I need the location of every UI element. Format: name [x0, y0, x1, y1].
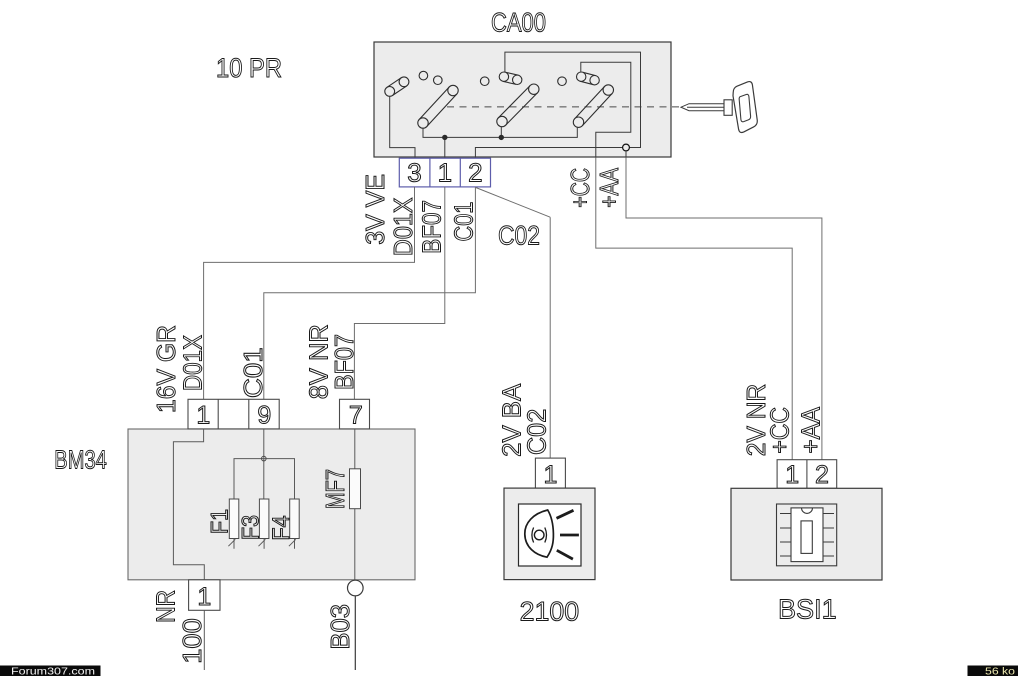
connector pin 1 of lamp 2100 [535, 458, 565, 489]
svg-text:2: 2 [815, 461, 829, 489]
wire pole1 fixed contact to pin 3 [390, 96, 415, 158]
BSI1 chip body [791, 508, 823, 562]
junction circle +AA tap [623, 144, 630, 151]
junction dot bus/pole2 [499, 135, 503, 139]
BSI1 chip icon outer [777, 504, 837, 566]
svg-text:1: 1 [785, 461, 799, 489]
svg-text:+CC: +CC [565, 168, 595, 208]
svg-text:CA00: CA00 [491, 8, 546, 38]
svg-text:C01: C01 [448, 202, 478, 242]
connector pins 1 / 9 on BM34 [188, 399, 279, 429]
svg-text:56 ko: 56 ko [985, 665, 1015, 676]
contact stud D [558, 77, 567, 86]
svg-text:F3: F3 [237, 515, 264, 540]
lamp ray bottom [557, 550, 573, 559]
junction dot bus/pin1 [443, 135, 447, 139]
watermark bar left [0, 666, 101, 676]
contact stud A [419, 71, 428, 80]
switch pole 2 moving contact [497, 84, 539, 127]
wire CA00 pin1 to BM34 pin7 [354, 187, 444, 399]
svg-text:BF07: BF07 [329, 334, 359, 390]
svg-text:9: 9 [257, 402, 271, 430]
svg-text:10 PR: 10 PR [216, 53, 282, 83]
svg-text:NR: NR [151, 590, 181, 623]
wire +AA tap stub [625, 151, 627, 158]
contact stud C [480, 77, 489, 86]
svg-text:B03: B03 [325, 604, 355, 650]
connector pins 1 2 of BSI1 [777, 460, 837, 489]
svg-text:16V GR: 16V GR [151, 325, 181, 413]
fuse bus [234, 459, 295, 499]
switch pole 1 moving contact [418, 85, 458, 128]
lamp paren right [545, 528, 547, 543]
svg-text:1: 1 [543, 461, 557, 489]
svg-text:D01X: D01X [388, 198, 418, 257]
ignition switch CA00 body [374, 42, 671, 157]
wire +AA to BSI1 pin2 [626, 158, 822, 460]
svg-text:2100: 2100 [520, 597, 580, 627]
svg-text:F4: F4 [268, 516, 295, 541]
lamp paren left [532, 528, 534, 543]
lamp lens icon [525, 510, 554, 557]
wire common bus of poles [423, 128, 577, 138]
key bow hole [739, 94, 750, 121]
svg-text:F1: F1 [207, 509, 234, 534]
contact stud B [434, 76, 443, 85]
switch pole 3 moving contact [573, 85, 613, 128]
fuse box BM34 body [128, 429, 415, 580]
wire pole2 drop to bus [500, 127, 502, 138]
svg-text:BF07: BF07 [417, 200, 447, 254]
lamp ray top [557, 510, 574, 518]
connector C02 pins 3 1 2 [399, 158, 490, 188]
svg-text:3V VE: 3V VE [360, 174, 390, 245]
svg-text:+AA: +AA [594, 167, 624, 207]
svg-text:C02: C02 [498, 221, 540, 251]
key collar [724, 100, 732, 116]
wire C02 to lamp 2100 [549, 217, 551, 458]
svg-text:BM34: BM34 [54, 444, 107, 474]
svg-text:2: 2 [468, 158, 482, 188]
wire BM34 pin9 to fuse bus [263, 429, 265, 499]
wire pole3 contact loop to +CC [581, 62, 631, 157]
wire +CC to BSI1 pin1 [596, 158, 792, 460]
body control unit BSI1 body [731, 488, 882, 580]
warning lamp 2100 body [504, 488, 595, 579]
pin 7 on BM34 [340, 399, 370, 429]
maxi fuse MF7 [350, 469, 361, 509]
svg-text:MF7: MF7 [320, 469, 350, 509]
BSI1 chip pins left [780, 514, 791, 557]
wire B03 down [354, 596, 356, 670]
splice node B03 [348, 580, 364, 596]
switch pole 3 fixed contact cylinder [577, 72, 600, 85]
wire bus to pin 1 [444, 140, 446, 158]
wire BM34 pin1 internal loop [173, 429, 204, 580]
connector pin 1 bottom of BM34 [189, 580, 220, 611]
dashed centerline [447, 106, 679, 108]
svg-text:1: 1 [438, 158, 452, 188]
svg-text:Forum307.com: Forum307.com [11, 665, 95, 676]
svg-text:+CC: +CC [765, 407, 795, 454]
fuse F1 [207, 499, 239, 549]
switch pole 1 fixed contact cylinder [385, 77, 409, 96]
junction node on fuse bus [262, 456, 267, 461]
svg-text:C02: C02 [521, 409, 551, 455]
wire C02 branch diagonal [476, 188, 550, 218]
lamp filament circle [534, 530, 544, 540]
wire pole2 contact loop to pin 2 [475, 52, 640, 158]
wire to ground 100 [203, 610, 205, 670]
svg-text:C01: C01 [238, 347, 268, 398]
watermark bar right [968, 666, 1018, 676]
lamp inner panel [519, 504, 582, 566]
svg-text:BSI1: BSI1 [778, 594, 837, 625]
wire CA00 pin2 to BM34 pin9 [264, 187, 476, 399]
BSI1 chip core [801, 521, 812, 554]
key bow [733, 82, 757, 133]
svg-text:+AA: +AA [796, 406, 826, 453]
svg-text:1: 1 [196, 402, 210, 430]
svg-text:7: 7 [349, 402, 363, 430]
wire BM34 pin7 through MF7 [354, 429, 356, 580]
svg-text:100: 100 [177, 618, 207, 664]
key blade [681, 104, 724, 111]
BSI1 chip pins right [823, 514, 834, 557]
svg-text:3: 3 [407, 158, 421, 188]
switch pole 2 fixed contact cylinder [499, 72, 522, 85]
wire CA00 pin3 to BM34 pin1 [204, 187, 415, 399]
svg-text:1: 1 [197, 583, 211, 611]
lamp ray middle [560, 534, 579, 537]
fuse F3 [237, 499, 269, 549]
svg-text:D01X: D01X [178, 335, 208, 391]
BSI1 chip notch [802, 508, 813, 514]
fuse F4 [268, 499, 299, 549]
